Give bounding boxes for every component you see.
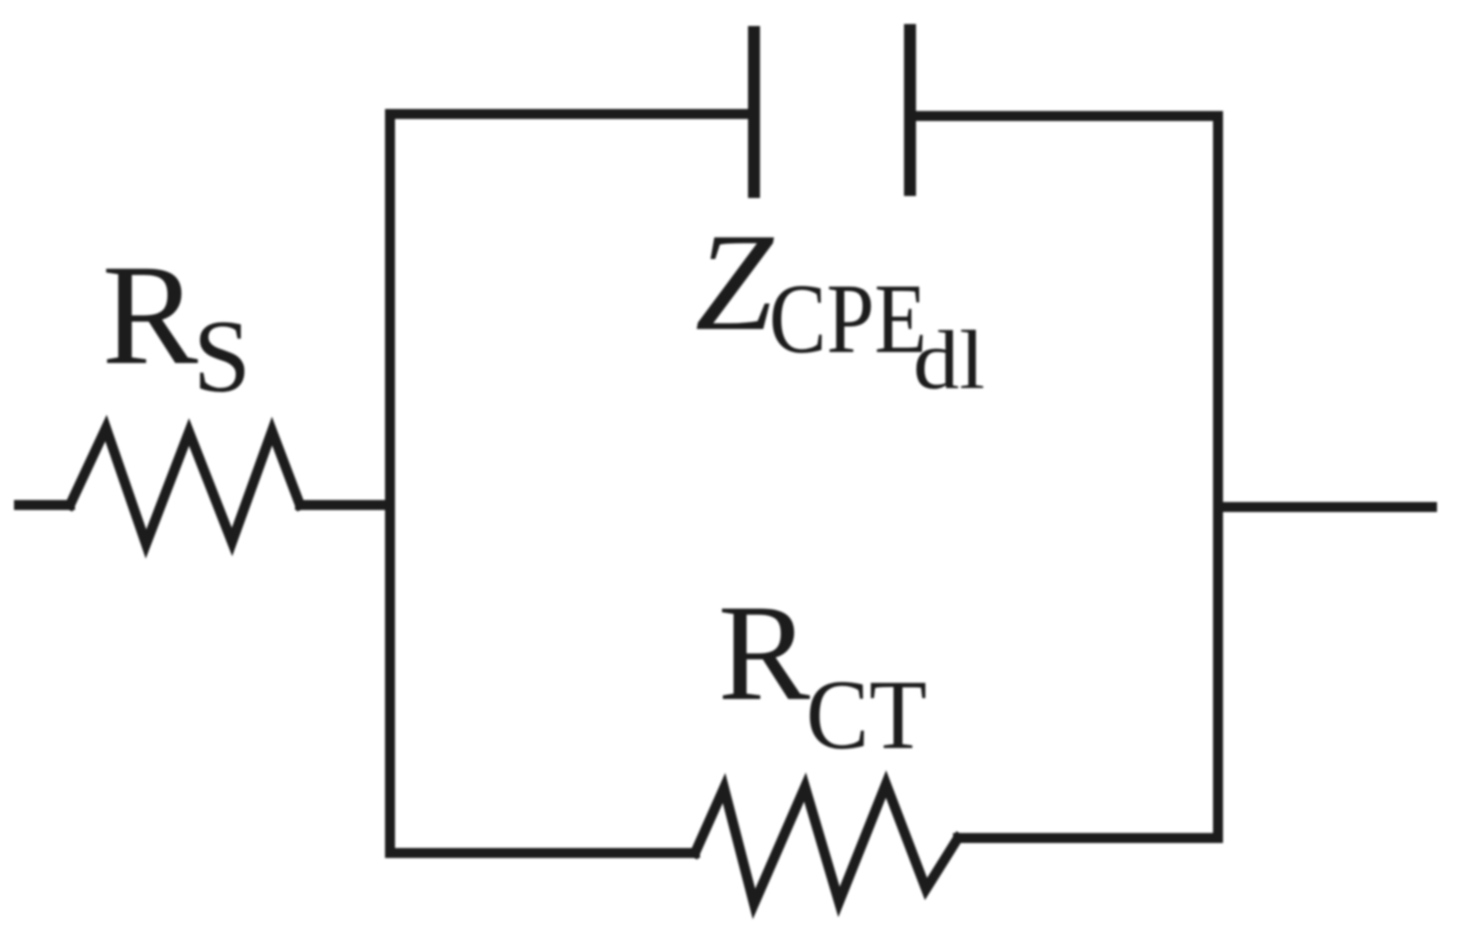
wire: R_S to left vertical rail <box>300 500 390 510</box>
resistor R_CT <box>695 784 958 904</box>
svg-text:S: S <box>193 299 251 414</box>
wire: left vertical rail of parallel block <box>385 114 395 853</box>
svg-text:Z: Z <box>695 205 775 360</box>
resistor R_S <box>70 428 300 544</box>
svg-text:CT: CT <box>806 659 927 770</box>
wire: top branch left (rail to capacitor) <box>390 109 749 119</box>
label R_CT <box>718 576 927 770</box>
capacitor ZCPEdl right plate <box>904 30 916 190</box>
label Z_CPE_dl <box>695 205 985 407</box>
svg-text:dl: dl <box>913 314 985 407</box>
svg-text:CPE: CPE <box>769 263 927 374</box>
capacitor ZCPEdl left plate <box>748 32 760 192</box>
label R_S <box>102 236 251 414</box>
wire: top branch right (capacitor to rail) <box>915 111 1218 121</box>
wire: bottom branch left (rail to resistor) <box>390 848 695 858</box>
wire: right vertical rail of parallel block <box>1213 116 1223 838</box>
wire: input lead left <box>19 500 70 510</box>
wire: output lead right <box>1218 502 1432 512</box>
svg-text:R: R <box>718 576 810 729</box>
wire: bottom branch right (resistor to rail) <box>958 833 1218 843</box>
svg-text:R: R <box>102 236 198 395</box>
